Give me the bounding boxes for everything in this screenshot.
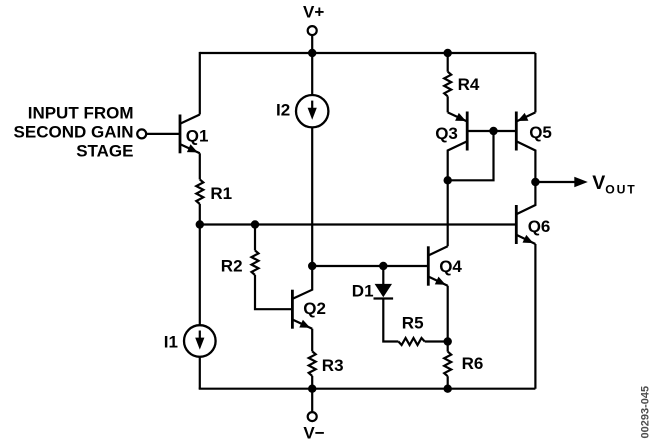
svg-text:OUT: OUT (605, 182, 636, 196)
transistor Q3 bar (466, 112, 469, 151)
transistor Q1 bar (179, 115, 182, 154)
transistor Q1 emitter arrow (187, 144, 198, 152)
node R2 junction on Q6 base rail (251, 220, 259, 228)
transistor Q4 bar (427, 246, 430, 285)
transistor Q3 collector (448, 141, 468, 180)
wire D1 cathode down (383, 299, 398, 342)
svg-text:R5: R5 (402, 313, 424, 332)
wire bottom rail (199, 388, 536, 390)
transistor Q2 emitter arrow (299, 320, 310, 328)
svg-text:Q4: Q4 (439, 257, 462, 276)
wire R3 to bottom rail (311, 376, 313, 389)
svg-text:SECOND GAIN: SECOND GAIN (14, 122, 134, 141)
wire V+ stub (311, 35, 313, 53)
transistor Q6 emitter (516, 235, 535, 244)
svg-text:INPUT FROM: INPUT FROM (28, 103, 134, 122)
diode D1 cathode bar (374, 297, 394, 299)
svg-text:Q1: Q1 (186, 126, 209, 145)
wire R2 to Q2 base (255, 275, 292, 309)
transistor Q2 collector (292, 266, 312, 299)
transistor Q6 collector (516, 182, 535, 214)
svg-text:Q6: Q6 (528, 217, 551, 236)
wire R2 top lead (254, 225, 256, 251)
resistor R2 (252, 250, 259, 275)
node R6 junction on bottom rail (444, 385, 452, 393)
resistor R6 (444, 352, 451, 377)
wire mid rail to I1 (199, 225, 201, 326)
svg-text:Q2: Q2 (303, 299, 326, 318)
wire Q3 collector node to Q4 collector (447, 180, 449, 246)
input terminal circle (137, 129, 146, 138)
current source I2 circle (296, 95, 328, 127)
transistor Q5 emitter (516, 112, 535, 121)
current source I1 arrow (199, 331, 201, 339)
V- terminal circle (308, 412, 317, 421)
wire R6 top lead (447, 342, 449, 352)
resistor R4 (444, 72, 451, 97)
svg-text:R2: R2 (221, 256, 243, 275)
V+ terminal circle (308, 26, 317, 35)
transistor Q4 emitter (428, 277, 447, 286)
svg-text:V+: V+ (303, 3, 324, 22)
resistor R5 (398, 338, 424, 345)
wire top rail to I2 (311, 53, 313, 95)
wire R4 to Q3 emitter (447, 96, 449, 112)
node V- junction on bottom rail (308, 385, 316, 393)
wire top rail to Q5 emitter (534, 53, 536, 112)
resistor R1 (196, 179, 203, 204)
wire Q6 base rail (200, 223, 517, 225)
svg-text:V−: V− (303, 424, 324, 443)
svg-text:Q3: Q3 (435, 124, 458, 143)
transistor Q2 bar (291, 290, 294, 329)
transistor Q5 collector (516, 141, 535, 182)
node Q3 collector tie junction (444, 176, 452, 184)
svg-text:R4: R4 (458, 75, 480, 94)
wire Q1 base lead (147, 133, 180, 135)
transistor Q5 bar (515, 112, 518, 151)
transistor Q3 emitter arrow (455, 113, 466, 121)
wire VOUT arrow shaft (535, 181, 575, 183)
svg-text:D1: D1 (352, 282, 374, 301)
transistor Q5 emitter arrow (518, 113, 529, 121)
transistor Q1 collector (180, 115, 200, 124)
wire I1 to bottom rail (199, 357, 201, 389)
transistor Q4 collector (428, 246, 447, 255)
wire base tie down (448, 131, 494, 180)
transistor Q6 emitter arrow (523, 235, 534, 243)
svg-text:STAGE: STAGE (76, 141, 133, 160)
svg-text:I1: I1 (164, 333, 178, 352)
wire R6 bottom lead (447, 376, 449, 389)
svg-text:V: V (592, 172, 605, 194)
node V+ junction on top rail (308, 49, 316, 57)
svg-text:R1: R1 (210, 184, 232, 203)
wire left column upper (top rail to Q1 collector) (199, 52, 201, 115)
node R4 junction on top rail (444, 49, 452, 57)
wire top supply rail (200, 52, 536, 54)
transistor Q3 emitter (448, 112, 468, 121)
transistor Q4 emitter arrow (435, 277, 446, 285)
wire VOUT arrowhead (574, 177, 588, 188)
node D1 junction (379, 262, 387, 270)
node left junction on Q6 base rail (196, 220, 204, 228)
wire V- stub (311, 389, 313, 413)
current source I1 circle (184, 325, 216, 357)
diode D1 triangle (375, 284, 392, 297)
transistor Q1 emitter (180, 144, 200, 153)
svg-text:Q5: Q5 (529, 123, 552, 142)
wire Q6 emitter to bottom rail (534, 244, 536, 389)
wire Q1 emitter to R1 (199, 153, 201, 179)
wire R1 to mid rail (199, 204, 201, 225)
resistor R3 (309, 351, 316, 376)
transistor Q6 bar (515, 205, 518, 244)
wire D1 anode lead (382, 266, 384, 284)
wire Q4 emitter down (447, 286, 449, 342)
svg-text:I2: I2 (276, 100, 290, 119)
svg-text:R6: R6 (462, 354, 484, 373)
wire Q3-Q5 base rail (467, 130, 516, 132)
current source I2 arrow (311, 101, 313, 109)
node R5-R6 junction (444, 337, 452, 345)
wire Q2 emitter to R3 (311, 329, 313, 352)
svg-text:00293-045: 00293-045 (639, 386, 651, 439)
svg-text:R3: R3 (322, 356, 344, 375)
wire I2 to Q2 collector node (311, 127, 313, 266)
wire R4 top lead (447, 53, 449, 72)
node VOUT junction (531, 178, 539, 186)
node base tie junction (489, 127, 497, 135)
wire Q4 base rail (312, 265, 428, 267)
node Q2 collector junction (308, 262, 316, 270)
transistor Q2 emitter (292, 320, 312, 329)
wire R5 to junction (425, 340, 448, 342)
